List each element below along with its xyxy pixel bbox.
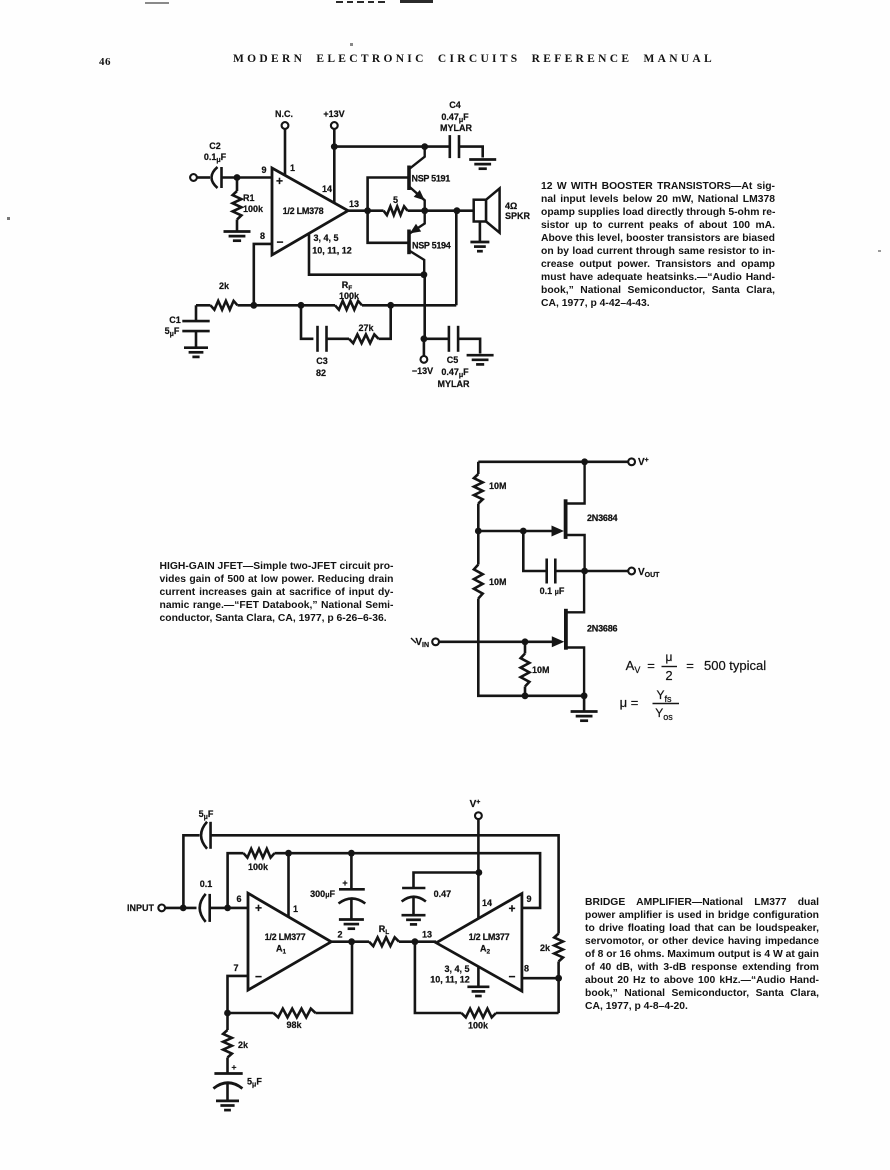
- node output junction: [364, 207, 371, 214]
- caption: BRIDGE AMPLIFIER: [585, 896, 819, 1013]
- wire Vin: [439, 640, 558, 643]
- terminal VOUT: [628, 567, 660, 579]
- svg-text:INPUT: INPUT: [127, 903, 155, 913]
- node gate2 junction: [522, 638, 529, 645]
- caption: HIGH-GAIN JFET: [160, 560, 394, 625]
- svg-text:3, 4, 5: 3, 4, 5: [313, 233, 338, 243]
- resistor 98k: [228, 942, 353, 1030]
- svg-text:100k: 100k: [468, 1021, 489, 1031]
- node C5 junction: [421, 335, 428, 342]
- capacitor C4 0.47uF MYLAR: [425, 100, 483, 158]
- wire A2 gnd pins: [477, 967, 480, 986]
- svg-text:8: 8: [524, 964, 529, 974]
- svg-text:14: 14: [482, 898, 492, 908]
- caption: 12 W WITH BOOSTER TRANSISTORS: [541, 180, 775, 310]
- node speaker junction: [454, 207, 461, 214]
- svg-text:MYLAR: MYLAR: [438, 379, 470, 389]
- input terminal J1: [190, 174, 210, 181]
- svg-text:C5: C5: [447, 355, 459, 365]
- node V+ junction: [581, 458, 588, 465]
- svg-text:VOUT: VOUT: [638, 567, 660, 579]
- wire V+ down: [477, 819, 480, 919]
- svg-text:8: 8: [260, 231, 265, 241]
- svg-text:SPKR: SPKR: [505, 211, 531, 221]
- svg-text:82: 82: [316, 368, 326, 378]
- wire pin7 step: [228, 976, 249, 1013]
- svg-text:100k: 100k: [248, 862, 269, 872]
- resistor 100k A2: [415, 942, 559, 1031]
- wire 100k riser: [228, 853, 244, 908]
- speaker 4 ohm SPKR: [474, 188, 531, 241]
- svg-text:−: −: [508, 970, 515, 984]
- wire gate1: [478, 530, 558, 533]
- svg-text:5μF: 5μF: [199, 809, 214, 821]
- ground A2 pins: [467, 987, 489, 996]
- ground bottom: [571, 696, 598, 721]
- terminal INPUT: [127, 903, 165, 913]
- wire top feedback: [211, 835, 559, 933]
- capacitor 5uF top: [199, 809, 214, 849]
- resistor 100k A1: [244, 849, 275, 872]
- svg-text:0.1 μF: 0.1 μF: [540, 586, 565, 596]
- svg-text:μ: μ: [666, 650, 673, 664]
- node pin2 junction: [348, 938, 355, 945]
- svg-text:=: =: [647, 658, 655, 673]
- transistor Q4 2N3686: [552, 571, 618, 696]
- svg-text:N.C.: N.C.: [275, 109, 293, 119]
- svg-text:2: 2: [665, 668, 672, 683]
- wire emitter vertical: [423, 275, 426, 339]
- svg-text:=: =: [686, 658, 694, 673]
- svg-text:9: 9: [261, 165, 266, 175]
- wire to speaker: [408, 209, 474, 212]
- svg-text:9: 9: [526, 894, 531, 904]
- svg-text:500 typical: 500 typical: [704, 658, 766, 673]
- node +13V rail junction: [331, 143, 338, 150]
- wire left rail: [478, 462, 584, 696]
- svg-text:+: +: [255, 901, 262, 915]
- wire feedback to speaker node: [455, 211, 458, 306]
- svg-text:2N3684: 2N3684: [587, 513, 618, 523]
- resistor 5 ohm: [384, 195, 408, 215]
- node input junction: [180, 905, 187, 912]
- svg-text:V+: V+: [470, 799, 481, 810]
- resistor 2k: [196, 281, 335, 310]
- svg-text:2N3686: 2N3686: [587, 624, 618, 634]
- svg-text:μ =: μ =: [620, 695, 639, 710]
- svg-text:+: +: [342, 878, 347, 888]
- label pin13: [422, 930, 432, 940]
- svg-text:2: 2: [337, 930, 342, 940]
- ground below 0.47: [402, 915, 426, 924]
- svg-text:1: 1: [290, 163, 295, 173]
- svg-text:5μF: 5μF: [165, 326, 180, 338]
- svg-text:10, 11, 12: 10, 11, 12: [430, 975, 470, 985]
- svg-text:0.47μF: 0.47μF: [441, 367, 469, 379]
- resistor RF 100k: [335, 280, 456, 310]
- page header: [0, 52, 890, 54]
- svg-text:10M: 10M: [532, 665, 550, 675]
- wire input riser: [183, 835, 199, 908]
- svg-text:13: 13: [349, 199, 359, 209]
- ground below R1: [224, 232, 251, 241]
- node RF right junction: [387, 302, 394, 309]
- svg-text:2k: 2k: [219, 281, 230, 291]
- node Vout junction: [581, 568, 588, 575]
- svg-text:2k: 2k: [238, 1040, 249, 1050]
- svg-text:13: 13: [422, 930, 432, 940]
- node pin8 junction: [555, 975, 562, 982]
- svg-text:C3: C3: [316, 356, 328, 366]
- node pin7 junction: [224, 1010, 231, 1017]
- svg-text:98k: 98k: [286, 1020, 302, 1030]
- node gate1 left junction: [475, 528, 482, 535]
- wire V+ rail: [478, 460, 628, 463]
- svg-text:3, 4, 5: 3, 4, 5: [444, 964, 469, 974]
- svg-text:27k: 27k: [358, 323, 374, 333]
- capacitor 5uF bottom: [213, 1062, 262, 1100]
- svg-text:100k: 100k: [339, 291, 360, 301]
- node collector rail junction: [421, 143, 428, 150]
- capacitor C5 0.47uF MYLAR: [424, 326, 480, 389]
- ground below C1: [184, 348, 208, 357]
- svg-text:4Ω: 4Ω: [505, 201, 517, 211]
- terminal V+: [628, 457, 649, 468]
- svg-text:NSP 5191: NSP 5191: [412, 173, 451, 183]
- svg-text:RL: RL: [379, 924, 390, 936]
- node pin6 junction: [224, 905, 231, 912]
- svg-text:V+: V+: [638, 457, 649, 468]
- wire cap to pin6: [210, 907, 248, 910]
- wire input node: [165, 907, 197, 910]
- capacitor 300uF: [310, 853, 365, 918]
- page top scan smudges: [145, 2, 169, 4]
- svg-text:1: 1: [293, 904, 298, 914]
- svg-text:10M: 10M: [489, 481, 507, 491]
- wire output node: [348, 209, 384, 212]
- resistor 27k: [349, 305, 391, 343]
- resistor 10M upper: [474, 474, 507, 504]
- svg-text:+13V: +13V: [323, 109, 344, 119]
- capacitor 0.47: [402, 873, 479, 915]
- op-amp A2 1/2 LM377: [430, 894, 531, 992]
- resistor 10M middle: [474, 565, 507, 599]
- svg-text:5: 5: [393, 195, 398, 205]
- svg-text:VIN: VIN: [415, 637, 429, 649]
- wire C2 to node: [222, 176, 273, 179]
- resistor 2k bottom: [223, 1013, 249, 1074]
- pin 1 wire to N.C.: [275, 109, 293, 176]
- ground below 300uF: [339, 920, 364, 929]
- capacitor C1 5uF: [165, 305, 210, 347]
- svg-text:Yos: Yos: [655, 706, 673, 722]
- wire +13V rail: [334, 145, 424, 148]
- node pin1 junction: [285, 850, 292, 857]
- node bottom rail right junction: [581, 692, 588, 699]
- wire pin8 step: [254, 244, 272, 305]
- ground below speaker: [470, 242, 489, 251]
- capacitor 0.1uF: [523, 531, 584, 596]
- transistor Q2 NSP5194: [409, 211, 451, 275]
- svg-text:1/2 LM378: 1/2 LM378: [283, 206, 324, 216]
- equation Av: [626, 650, 767, 683]
- resistor R1 100k: [233, 178, 264, 232]
- op-amp U1 1/2 LM378: [260, 163, 359, 256]
- svg-text:10, 11, 12: 10, 11, 12: [312, 246, 352, 256]
- svg-text:MYLAR: MYLAR: [440, 123, 472, 133]
- svg-text:C1: C1: [169, 315, 181, 325]
- svg-text:AV: AV: [626, 658, 641, 675]
- terminal VIN: [411, 637, 439, 649]
- svg-text:2k: 2k: [540, 943, 551, 953]
- svg-text:+: +: [232, 1062, 237, 1072]
- svg-text:C4: C4: [449, 100, 461, 110]
- svg-text:5μF: 5μF: [247, 1077, 262, 1089]
- svg-text:+: +: [508, 902, 515, 916]
- ground bottom left: [216, 1101, 239, 1110]
- svg-text:NSP 5194: NSP 5194: [412, 240, 451, 250]
- wire 100k to pin9 rail: [275, 853, 541, 908]
- svg-text:A1: A1: [276, 944, 287, 956]
- resistor RL: [369, 924, 399, 946]
- capacitor C2: [204, 141, 227, 188]
- svg-text:0.1μF: 0.1μF: [204, 152, 227, 164]
- svg-text:300μF: 300μF: [310, 889, 335, 899]
- terminal V+ bridge: [470, 799, 482, 819]
- wire op-amp bottom pins to emitter rail: [309, 234, 424, 275]
- wire base tie: [368, 178, 409, 243]
- svg-text:C2: C2: [209, 141, 221, 151]
- node emitter junction: [421, 207, 428, 214]
- svg-text:0.47: 0.47: [434, 889, 452, 899]
- transistor Q3 2N3684: [552, 462, 618, 571]
- svg-text:7: 7: [233, 963, 238, 973]
- terminal +13V: [323, 109, 344, 203]
- node pin13 junction: [412, 938, 419, 945]
- ground below C5: [467, 355, 494, 364]
- node 300uF junction: [348, 850, 355, 857]
- node C3 branch junction: [298, 302, 305, 309]
- node 0.47 junction: [476, 869, 483, 876]
- svg-text:1/2 LM377: 1/2 LM377: [265, 932, 306, 942]
- op-amp A1 1/2 LM377: [233, 893, 342, 990]
- node input junction: [234, 174, 241, 181]
- svg-text:Yfs: Yfs: [656, 688, 672, 704]
- svg-text:+: +: [276, 174, 283, 188]
- resistor 2k right: [540, 934, 563, 1014]
- svg-text:A2: A2: [480, 944, 491, 956]
- wire RL to pin13: [399, 940, 436, 943]
- wire Vout: [585, 570, 629, 573]
- svg-text:−: −: [255, 970, 262, 984]
- wire pin8: [522, 977, 559, 980]
- ground below C4: [469, 160, 496, 169]
- capacitor 0.1 input: [200, 879, 213, 922]
- node gate1 cap junction: [520, 528, 527, 535]
- transistor Q1 NSP5191: [409, 146, 450, 211]
- node emitter rail junction: [421, 271, 428, 278]
- svg-text:−: −: [276, 235, 283, 249]
- svg-text:0.1: 0.1: [200, 879, 213, 889]
- wire pin1: [287, 853, 290, 917]
- equation mu: [620, 688, 679, 722]
- capacitor C3 82: [301, 305, 349, 378]
- svg-text:1/2 LM377: 1/2 LM377: [469, 932, 510, 942]
- svg-text:6: 6: [236, 894, 241, 904]
- svg-text:10M: 10M: [489, 577, 507, 587]
- wire pin2 out: [331, 940, 369, 943]
- terminal -13V: [412, 339, 433, 376]
- svg-text:R1: R1: [243, 193, 255, 203]
- svg-text:14: 14: [322, 184, 332, 194]
- svg-text:100k: 100k: [243, 204, 264, 214]
- node feedback left junction: [250, 302, 257, 309]
- node bottom rail left junction: [522, 692, 529, 699]
- resistor 10M lower: [521, 642, 550, 696]
- svg-text:−13V: −13V: [412, 366, 433, 376]
